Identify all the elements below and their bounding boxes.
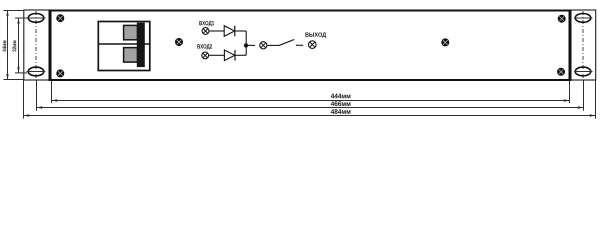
panel body outline [50, 11, 570, 81]
label ВЫХОД [305, 32, 326, 37]
screw bottom-right [557, 68, 565, 76]
junction node [244, 43, 248, 47]
wire node to HL3 [248, 44, 255, 46]
screw top-right [558, 15, 566, 23]
dimension 484mm [24, 109, 596, 117]
left rack ear [24, 10, 50, 80]
terminal block socket bottom [124, 48, 138, 63]
screw mid-right [441, 38, 449, 46]
right ear hole top [574, 14, 593, 23]
left ear hole top [27, 14, 46, 23]
terminal block divider [98, 43, 150, 45]
fold line right [569, 10, 572, 82]
label ВХОД1 [199, 21, 214, 26]
dimension 44mm [4, 10, 24, 80]
lamp HL2 [202, 52, 209, 59]
diode VD2 [224, 50, 235, 61]
dimension 32mm [15, 18, 27, 73]
left ear hole bottom [27, 67, 46, 76]
wire VD1 to bus [235, 30, 246, 32]
lamp HL3 [260, 42, 267, 49]
right ear hole centerline [582, 11, 584, 79]
extension lines below panel [24, 81, 596, 119]
label ВХОД2 [197, 44, 212, 49]
wire VD2 to bus [235, 54, 246, 56]
screw bottom-left [56, 69, 64, 77]
right rack ear [570, 10, 596, 80]
wire HL2-VD2 [209, 54, 224, 56]
dimension 466mm [37, 101, 584, 108]
bus wire vertical [245, 31, 247, 55]
screw mid-left [175, 38, 183, 46]
wire switch to HL4 [296, 44, 303, 46]
diode VD1 [224, 26, 235, 37]
right ear hole bottom [574, 67, 593, 76]
terminal block bar [137, 23, 145, 68]
terminal block socket top [124, 25, 138, 39]
left ear hole centerline [35, 11, 37, 79]
fold line left [49, 10, 52, 82]
screw top-left [56, 14, 64, 22]
lamp HL1 [202, 28, 209, 35]
lamp HL4 [309, 41, 317, 49]
switch SA1 blade [279, 40, 294, 46]
wire HL3 to switch [267, 44, 278, 46]
dimension 444mm [52, 94, 570, 102]
terminal block XT1 outline [98, 22, 150, 71]
wire HL1-VD1 [209, 30, 224, 32]
